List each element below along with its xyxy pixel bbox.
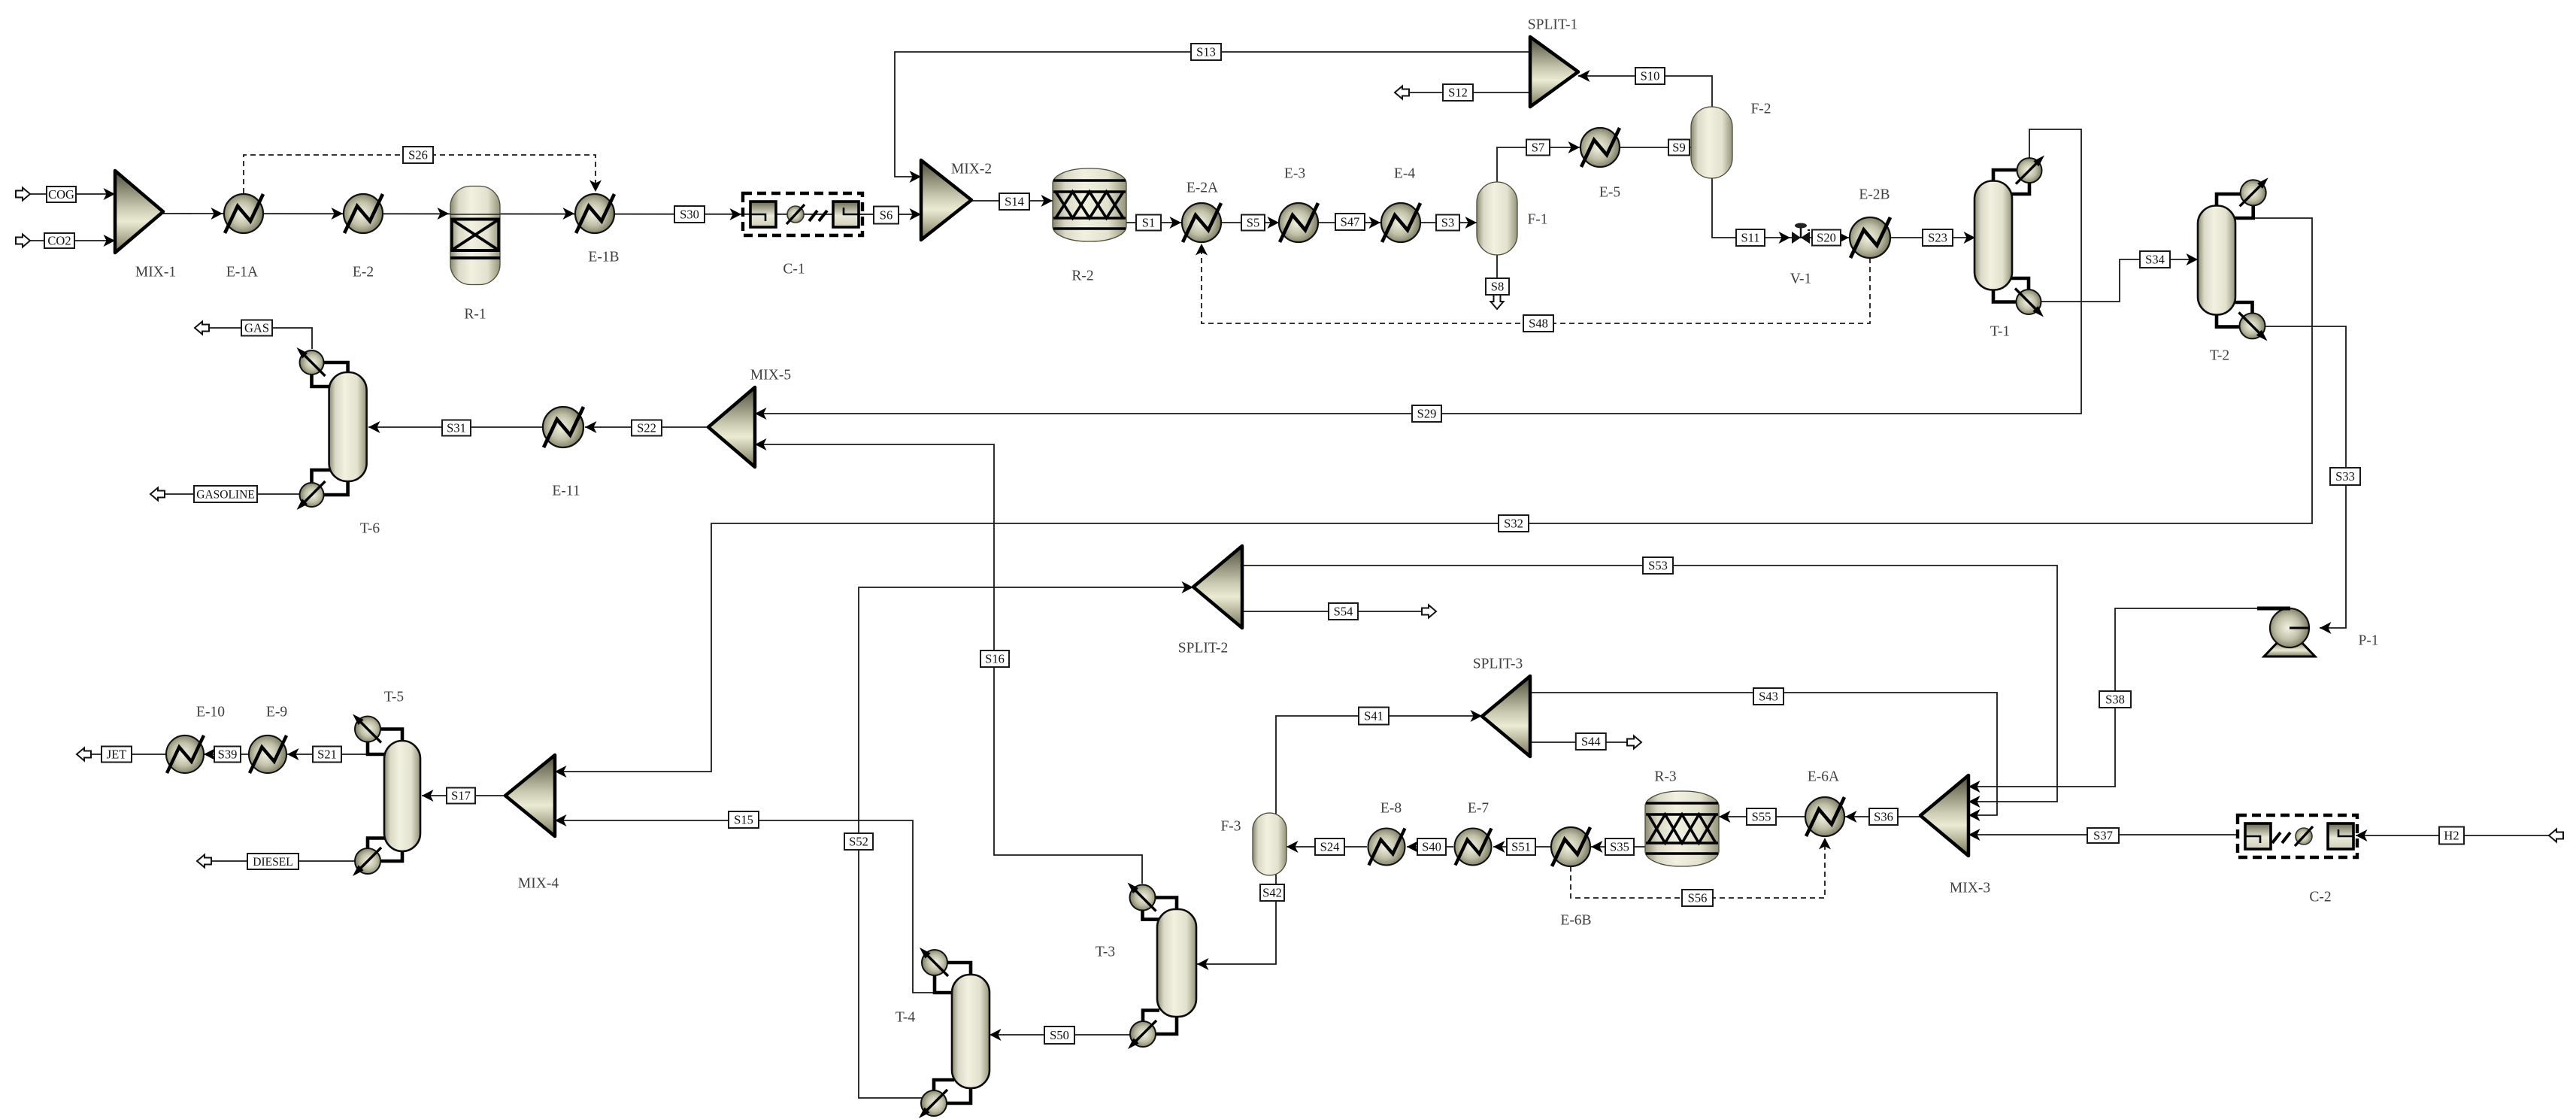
svg-text:C-2: C-2: [2309, 890, 2331, 905]
svg-text:T-3: T-3: [1096, 945, 1115, 960]
svg-text:S41: S41: [1364, 709, 1383, 723]
svg-text:R-1: R-1: [464, 307, 486, 323]
svg-text:S36: S36: [1874, 810, 1893, 824]
svg-text:E-1A: E-1A: [226, 265, 258, 281]
svg-text:S15: S15: [734, 813, 753, 827]
svg-text:S37: S37: [2093, 829, 2113, 843]
svg-text:S30: S30: [680, 208, 699, 222]
svg-text:S8: S8: [1491, 280, 1504, 294]
svg-text:S42: S42: [1262, 886, 1282, 900]
svg-text:S17: S17: [451, 789, 471, 803]
svg-text:S7: S7: [1532, 141, 1544, 155]
svg-text:C-1: C-1: [783, 262, 805, 277]
svg-text:COG: COG: [48, 187, 74, 202]
svg-text:SPLIT-3: SPLIT-3: [1473, 657, 1523, 672]
svg-text:E-2B: E-2B: [1859, 187, 1890, 203]
svg-text:S39: S39: [218, 748, 238, 762]
svg-text:S52: S52: [849, 835, 868, 849]
svg-text:E-6A: E-6A: [1808, 769, 1839, 785]
svg-text:CO2: CO2: [47, 234, 71, 248]
svg-text:S22: S22: [637, 421, 656, 435]
svg-text:S47: S47: [1341, 215, 1360, 229]
svg-text:S24: S24: [1320, 840, 1340, 854]
svg-text:S40: S40: [1422, 840, 1441, 854]
svg-text:S50: S50: [1050, 1028, 1069, 1042]
svg-text:S54: S54: [1334, 605, 1353, 619]
svg-text:S32: S32: [1504, 517, 1523, 531]
svg-text:MIX-4: MIX-4: [518, 876, 559, 892]
svg-text:V-1: V-1: [1790, 271, 1812, 287]
svg-text:E-8: E-8: [1380, 801, 1402, 817]
svg-text:S23: S23: [1928, 231, 1947, 245]
svg-text:S44: S44: [1581, 735, 1601, 749]
svg-text:MIX-1: MIX-1: [135, 265, 176, 281]
svg-text:T-1: T-1: [1990, 324, 2010, 340]
svg-text:H2: H2: [2444, 829, 2459, 843]
svg-text:P-1: P-1: [2358, 633, 2378, 649]
svg-text:S5: S5: [1247, 216, 1259, 230]
svg-text:S14: S14: [1005, 195, 1024, 209]
svg-text:S34: S34: [2145, 253, 2165, 267]
svg-text:S26: S26: [408, 148, 428, 162]
svg-text:S35: S35: [1610, 840, 1629, 854]
svg-text:S3: S3: [1441, 216, 1454, 230]
svg-text:E-4: E-4: [1394, 166, 1415, 182]
svg-text:S55: S55: [1752, 810, 1771, 824]
svg-text:S51: S51: [1511, 840, 1531, 854]
svg-text:R-3: R-3: [1654, 769, 1676, 785]
svg-text:S38: S38: [2105, 693, 2125, 707]
svg-text:F-3: F-3: [1220, 819, 1241, 835]
svg-text:S12: S12: [1448, 86, 1468, 100]
svg-text:SPLIT-1: SPLIT-1: [1528, 17, 1577, 33]
svg-text:GAS: GAS: [244, 321, 269, 335]
svg-text:E-6B: E-6B: [1560, 913, 1591, 929]
svg-text:E-5: E-5: [1599, 185, 1620, 201]
svg-text:S16: S16: [985, 652, 1005, 666]
svg-text:E-10: E-10: [196, 705, 225, 720]
svg-text:GASOLINE: GASOLINE: [196, 488, 255, 501]
svg-text:T-5: T-5: [384, 690, 404, 705]
svg-text:MIX-5: MIX-5: [750, 368, 791, 384]
svg-text:S31: S31: [447, 421, 466, 435]
svg-text:E-1B: E-1B: [588, 250, 619, 265]
svg-text:DIESEL: DIESEL: [253, 856, 292, 869]
svg-text:JET: JET: [107, 748, 127, 762]
svg-text:E-7: E-7: [1468, 801, 1489, 817]
svg-text:S21: S21: [317, 748, 337, 762]
svg-text:E-3: E-3: [1284, 166, 1305, 182]
svg-text:T-4: T-4: [896, 1010, 916, 1026]
svg-text:S13: S13: [1196, 45, 1216, 59]
svg-text:S6: S6: [880, 208, 893, 223]
svg-text:R-2: R-2: [1071, 268, 1093, 284]
svg-text:E-2: E-2: [353, 265, 374, 281]
svg-text:S33: S33: [2335, 469, 2355, 484]
svg-text:S11: S11: [1741, 231, 1759, 245]
svg-text:T-6: T-6: [360, 521, 380, 537]
svg-text:S53: S53: [1648, 559, 1668, 573]
svg-text:E-11: E-11: [552, 484, 580, 499]
svg-text:T-2: T-2: [2210, 348, 2229, 364]
svg-text:S1: S1: [1142, 216, 1155, 230]
svg-text:S48: S48: [1529, 317, 1548, 331]
svg-text:MIX-3: MIX-3: [1950, 881, 1990, 896]
svg-text:S20: S20: [1817, 231, 1836, 245]
svg-text:E-2A: E-2A: [1186, 180, 1218, 196]
svg-text:SPLIT-2: SPLIT-2: [1178, 641, 1228, 657]
svg-text:S29: S29: [1417, 407, 1437, 421]
svg-text:F-1: F-1: [1527, 212, 1547, 228]
svg-text:F-2: F-2: [1750, 102, 1771, 117]
svg-text:S56: S56: [1688, 891, 1708, 905]
svg-text:S9: S9: [1672, 141, 1685, 155]
svg-text:S43: S43: [1759, 690, 1778, 704]
svg-text:MIX-2: MIX-2: [951, 162, 992, 177]
svg-text:S10: S10: [1641, 69, 1660, 83]
svg-text:E-9: E-9: [266, 705, 287, 720]
